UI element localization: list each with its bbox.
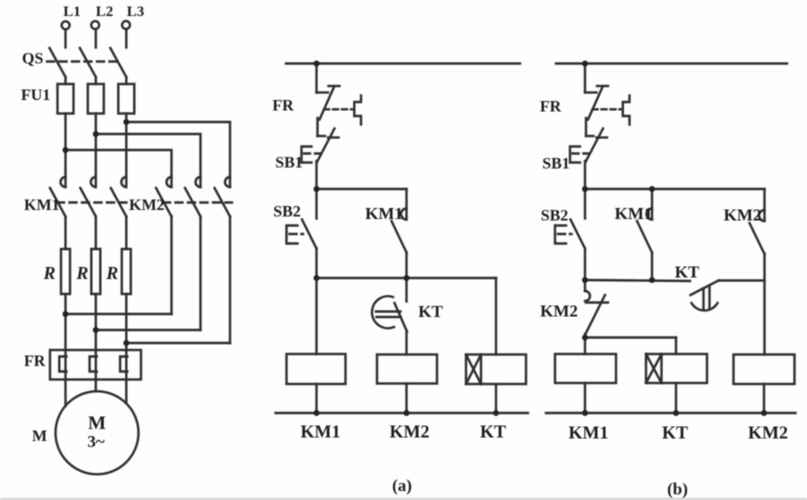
svg-text:3~: 3~ <box>87 432 105 451</box>
svg-text:FR: FR <box>24 353 46 370</box>
svg-text:KM2: KM2 <box>390 422 430 442</box>
svg-text:KM1: KM1 <box>24 197 60 214</box>
svg-text:KM1: KM1 <box>301 422 341 442</box>
svg-text:SB1: SB1 <box>275 155 303 172</box>
svg-text:KM2: KM2 <box>724 206 762 225</box>
svg-text:KM2: KM2 <box>540 302 578 321</box>
svg-text:(a): (a) <box>392 476 412 495</box>
svg-text:SB1: SB1 <box>542 156 570 173</box>
svg-text:KT: KT <box>675 263 700 282</box>
svg-text:L3: L3 <box>127 4 145 20</box>
svg-text:R: R <box>105 263 118 283</box>
svg-text:QS: QS <box>22 51 43 68</box>
svg-text:FU1: FU1 <box>21 87 50 104</box>
svg-text:FR: FR <box>272 98 294 115</box>
svg-text:KM2: KM2 <box>129 197 165 214</box>
svg-text:KM1: KM1 <box>615 204 653 223</box>
svg-text:M: M <box>32 428 47 445</box>
svg-text:R: R <box>75 263 88 283</box>
svg-text:KM1: KM1 <box>365 204 403 223</box>
svg-text:KT: KT <box>418 302 443 321</box>
svg-text:SB2: SB2 <box>273 204 301 221</box>
svg-text:R: R <box>43 263 56 283</box>
svg-text:KT: KT <box>480 422 506 442</box>
svg-text:(b): (b) <box>667 480 688 499</box>
svg-text:L1: L1 <box>63 4 81 20</box>
svg-text:FR: FR <box>540 99 562 116</box>
svg-text:SB2: SB2 <box>541 208 569 225</box>
svg-text:M: M <box>88 413 106 434</box>
svg-text:KM1: KM1 <box>569 423 609 443</box>
svg-text:KT: KT <box>662 423 688 443</box>
svg-text:KM2: KM2 <box>748 423 788 443</box>
svg-text:L2: L2 <box>96 4 114 20</box>
